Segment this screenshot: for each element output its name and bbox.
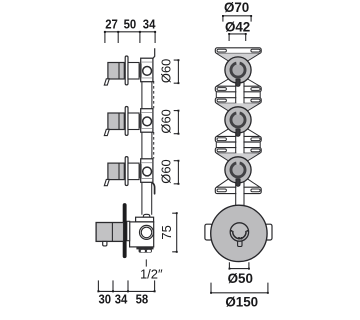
mixer cartridge circles [140,225,154,239]
svg-text:Ø60: Ø60 [159,159,174,183]
svg-text:Ø60: Ø60 [159,109,174,133]
svg-text:Ø50: Ø50 [228,271,253,286]
handle boss diameter 50 [230,223,248,247]
dimension diameter 60, row 3 [159,159,180,184]
dimension line diameter 50 [229,262,250,269]
top dimension line 27-50-34 [104,31,156,43]
label 30 [98,292,111,307]
connecting pipe row1-row2 [142,82,152,109]
mounting rail hidden dashed [153,81,155,159]
svg-text:Ø70: Ø70 [224,0,249,15]
escutcheon disc diameter 150 [211,205,267,261]
mixer button tab [103,241,107,246]
svg-text:34: 34 [115,292,128,307]
side-view handle row 2 [104,107,153,136]
dimension diameter 60, row 1 [159,59,180,84]
front-view pipe row3-escutcheon [236,182,244,206]
front-view pipe row1-row2 [236,82,244,108]
mixer spacer [127,221,130,240]
svg-text:75: 75 [159,225,174,239]
dimension line diameter 70 [222,15,252,22]
mixer main body [130,222,154,247]
mounting rail top hook [153,48,155,58]
label diameter 70 [224,0,249,15]
dimension line diameter 42 [228,33,247,41]
mixer outlet fitting 1/2 inch [136,247,153,253]
front-view top mounting bracket [215,48,261,54]
label diameter 50 [228,271,253,286]
side-view handle row 3 [104,157,153,186]
connecting pipe row2-row3 [142,133,152,159]
mixer top plate [136,217,154,222]
label 27 [105,17,118,32]
bottom dimension line 30-34-58 [97,280,155,292]
svg-text:34: 34 [143,17,156,32]
svg-text:50: 50 [124,17,137,32]
front-view wing lines row 3 [216,153,260,187]
front-view pipe row2-row3 [236,132,244,158]
mixer pipe dome cap [143,214,150,217]
mixer escutcheon dark bar [123,203,127,258]
front-view bottom bracket [215,187,261,193]
svg-text:27: 27 [105,17,118,32]
mounting rail bottom hook [153,183,155,194]
label 1/2 inch [140,266,163,281]
front-view knob row 2 [225,107,251,137]
dimension diameter 60, row 2 [159,109,180,134]
front-view junction block 2 [215,136,261,153]
front-view wing lines row 1 [216,53,260,86]
svg-text:58: 58 [136,292,149,307]
svg-text:1/2″: 1/2″ [140,266,163,281]
label 58 [136,292,149,307]
connecting pipe row3-mixer [142,183,152,215]
front-view knob row 1 [225,57,251,87]
leader line to outlet [145,259,147,266]
side port right [265,224,272,240]
svg-text:Ø42: Ø42 [225,20,250,35]
svg-text:30: 30 [98,292,111,307]
label diameter 42 [225,20,250,35]
dimension line diameter 150 [210,283,269,294]
svg-text:Ø60: Ø60 [159,59,174,83]
label 34 [115,292,128,307]
label diameter 150 [225,294,258,309]
front-view knob row 3 [225,157,251,187]
label 50 [124,17,137,32]
label 34 [143,17,156,32]
side port left [205,224,212,240]
mixer knob [96,223,124,242]
front-view junction block 1 [215,86,261,103]
front-view wing lines row 2 [216,103,260,136]
dimension 75 [159,212,178,253]
side-view handle row 1 [104,56,153,85]
svg-text:Ø150: Ø150 [225,294,258,309]
